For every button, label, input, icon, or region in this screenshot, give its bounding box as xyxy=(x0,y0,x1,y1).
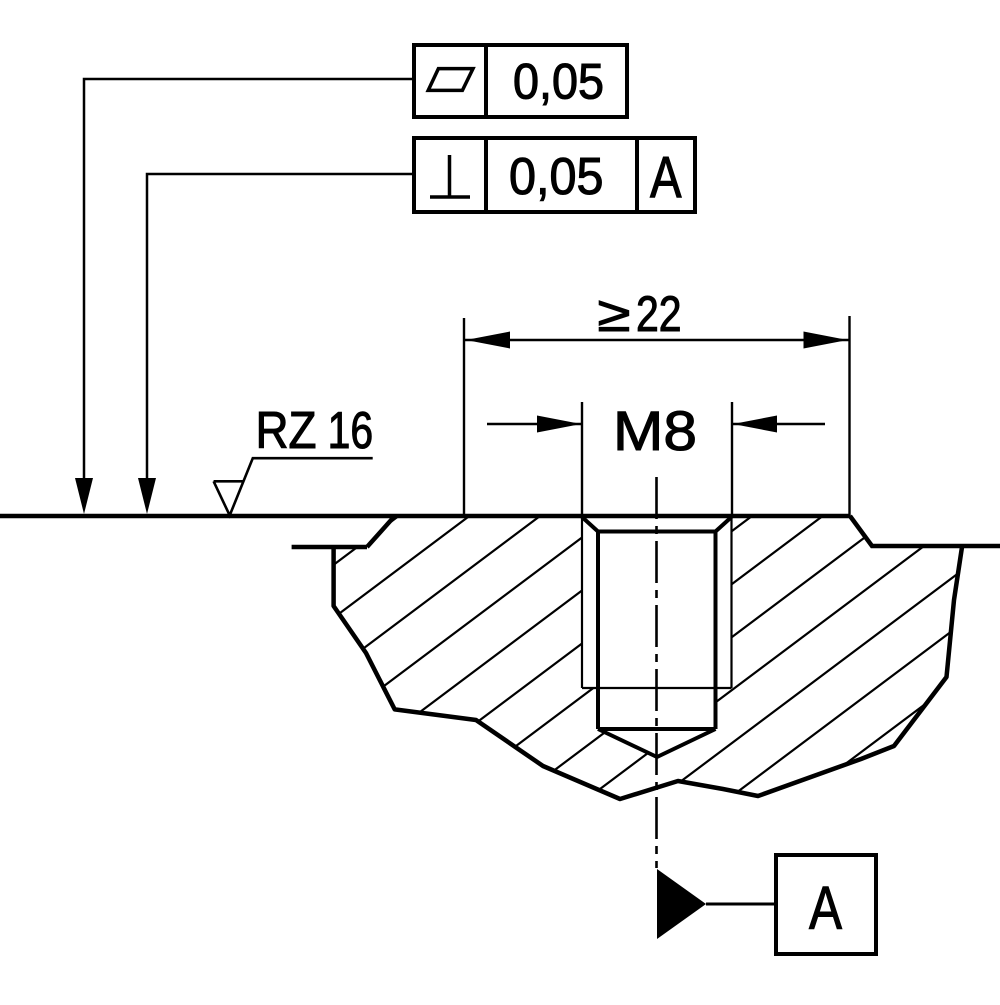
M8 arrow line right xyxy=(733,423,825,425)
svg-text:22: 22 xyxy=(636,286,682,342)
drill point cone xyxy=(598,729,716,757)
feature control frame F1 (flatness) box xyxy=(414,45,627,117)
surface roughness symbol xyxy=(214,458,373,515)
dimension >=22 extension line left xyxy=(463,318,465,517)
svg-text:M8: M8 xyxy=(613,399,697,462)
tap drill hole (thick) xyxy=(598,532,716,730)
svg-text:≥: ≥ xyxy=(598,286,631,342)
centerline (dash-dot axis) xyxy=(655,477,658,868)
feature control frame F2 (perpendicularity) box xyxy=(414,138,695,212)
M8 arrowhead left xyxy=(537,416,581,433)
top surface line (datum face) xyxy=(0,514,850,519)
dimension arrowhead right xyxy=(804,332,848,349)
dimension >=22 extension line right xyxy=(848,316,850,517)
svg-text:RZ: RZ xyxy=(256,402,317,460)
chamfer edges xyxy=(582,517,732,532)
thread major diameter lines (thin) xyxy=(582,517,732,688)
M8 extension line right xyxy=(731,402,733,517)
leader arrowhead 2 xyxy=(138,478,156,514)
svg-text:A: A xyxy=(809,874,842,942)
left ledge line xyxy=(292,545,367,550)
svg-text:16: 16 xyxy=(328,402,374,460)
M8 arrowhead right xyxy=(733,416,777,433)
svg-text:A: A xyxy=(650,146,682,211)
M8 arrow line left xyxy=(487,423,581,425)
svg-text:0,05: 0,05 xyxy=(513,54,604,110)
leader line from F1 to surface xyxy=(84,79,414,481)
dimension >=22 line xyxy=(464,339,850,341)
datum leader line xyxy=(706,903,776,906)
dimension arrowhead left xyxy=(466,332,510,349)
leader arrowhead 1 xyxy=(75,478,93,514)
svg-text:0,05: 0,05 xyxy=(509,148,604,206)
M8 extension line left xyxy=(581,402,583,517)
perpendicularity symbol xyxy=(430,155,470,197)
hatching (section lines) xyxy=(200,65,1000,1005)
flatness symbol (parallelogram) xyxy=(428,69,473,91)
datum triangle (filled) xyxy=(657,869,706,939)
right step edge xyxy=(850,516,1000,546)
datum frame square xyxy=(776,855,876,954)
leader line from F2 to surface xyxy=(147,174,414,481)
section blob outline (break lines) xyxy=(334,516,962,799)
